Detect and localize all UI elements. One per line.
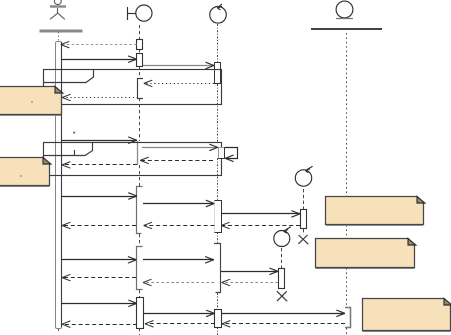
return 4: boundary to actor (dashed) (62, 162, 137, 169)
entity lifeline (dotted) (346, 33, 348, 335)
destroy X on control 3 lifeline (277, 291, 287, 301)
message 12: actor to boundary (5th) (61, 300, 137, 307)
message 1: found dashed message to actor (61, 41, 137, 48)
boundary activation bar 1 (137, 40, 143, 50)
combined fragment 2 (44, 143, 222, 176)
message 13: boundary to control 1 (5th) (144, 310, 215, 317)
message 9: actor to boundary (4th) (61, 257, 136, 264)
return 3: control 1 to boundary (dashed) (140, 157, 213, 164)
actor lifeline (dotted top + dot below) (58, 32, 60, 331)
message 5: boundary to control 1 (2nd) (142, 144, 218, 151)
actor base bar (40, 30, 83, 33)
message 10: boundary to control 1 (4th) (143, 257, 214, 264)
control 3 activation bar (279, 269, 285, 289)
control 1 activation bar 3 (215, 201, 222, 233)
destroy X on control 2 lifeline (298, 235, 308, 244)
control object 3 lifeline (281, 248, 283, 268)
entity base bar (311, 28, 382, 30)
return 9: control 1 to boundary (dotted) (143, 279, 214, 286)
boundary activation bar 2 (137, 54, 143, 67)
entity object symbol (336, 1, 353, 18)
return 7: boundary to actor (dashed) (62, 222, 136, 229)
message 8: control 1 creates control 2 (222, 211, 301, 218)
return 8: boundary to actor (dashed) (62, 274, 136, 281)
control object 2 lifeline (303, 189, 305, 235)
message 4: actor to boundary (2nd) (61, 137, 137, 144)
boundary object symbol (128, 5, 152, 21)
return 6: control 1 to boundary (dashed) (144, 222, 215, 229)
control 1 self-call activation bar (219, 148, 225, 159)
control 1 activation bar 5 (215, 310, 222, 328)
return 13: boundary to actor (dashed) (62, 321, 137, 328)
entity activation bracket (345, 308, 351, 328)
note R3 (bottom right) (363, 299, 451, 332)
return 2: boundary to actor (dotted) (62, 94, 138, 101)
message 7: boundary to control 1 (3rd) (143, 200, 214, 207)
stray label dot (73, 132, 75, 134)
return 12: control 1 to boundary (dashed) (145, 321, 215, 328)
return 1: control 1 to boundary (dotted) (144, 80, 214, 87)
control object 2 symbol (295, 166, 312, 186)
message 6: actor to boundary (3rd) (61, 193, 137, 200)
boundary activation bracket (fragment 1) (138, 79, 144, 99)
control 1 activation bracket 4 (214, 244, 221, 293)
actor activation bar (56, 42, 62, 329)
control 2 activation bar (301, 210, 307, 229)
control object 1 symbol (210, 4, 227, 23)
return 5: control 2 to control 1 (dashed) (221, 222, 300, 229)
boundary activation bracket 4 (137, 247, 143, 290)
boundary activation bracket 3 (137, 187, 143, 234)
control object 3 symbol (274, 227, 291, 247)
message 3: boundary to control 1 (143, 62, 214, 69)
boundary lifeline (139, 25, 141, 335)
note R2 (right middle) (316, 239, 416, 269)
boundary activation line (fragment 2) (137, 141, 139, 165)
note 2 (left) (0, 158, 51, 187)
note R1 (right upper) (326, 197, 425, 226)
note 1 (left) (0, 87, 63, 116)
boundary activation bar 5 (137, 298, 144, 329)
message 14: control 1 to entity (221, 310, 345, 317)
return 11: entity to control 1 (dashed) (222, 321, 345, 328)
fragment 2 label tick (74, 150, 76, 155)
message 2: actor to boundary (61, 56, 137, 63)
message 11: control 1 to control 3 (221, 268, 278, 275)
message: control 1 self call loop (225, 148, 238, 162)
combined fragment 1 (44, 70, 222, 105)
return 10: control 3 to control 1 (dotted) (222, 279, 278, 286)
control 1 activation bar (top) (215, 63, 221, 84)
control object 1 lifeline (dash-dot) (217, 24, 219, 335)
actor figure (50, 0, 66, 19)
